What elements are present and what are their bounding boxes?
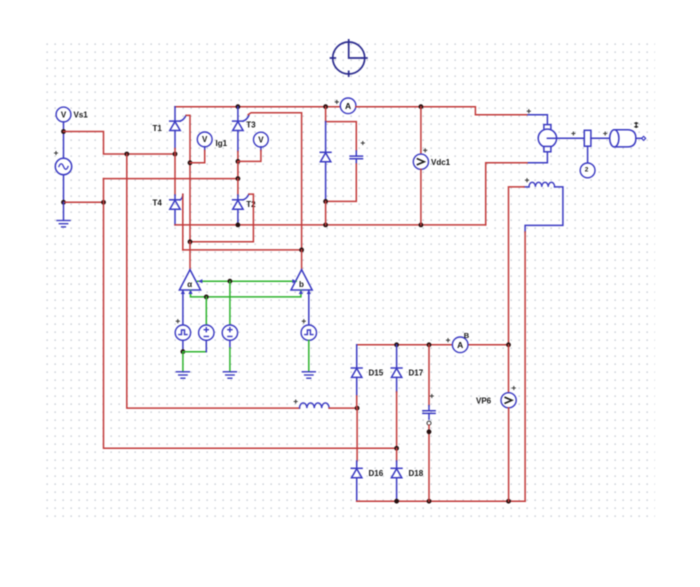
junction bottom rail freewheel — [323, 223, 328, 228]
wire phase A to T4 — [174, 154, 176, 195]
wire D17 anode to node — [396, 392, 398, 448]
arrow into b left — [292, 279, 296, 283]
capacitor C2 — [423, 406, 435, 420]
junction bottom rail T2 — [236, 223, 241, 228]
polarity mark L1 — [294, 400, 297, 403]
svg-text:T4: T4 — [153, 199, 163, 208]
square-wave source Vgb — [301, 325, 316, 340]
junction Vga return — [181, 349, 186, 354]
polarity mark AC source — [55, 152, 58, 155]
wire field bridge top rail left — [357, 344, 453, 346]
lead D17 anode — [396, 378, 398, 393]
svg-text:D15: D15 — [369, 369, 384, 378]
junction bottom rail C2 — [427, 499, 432, 504]
wire D15 anode to node — [356, 396, 358, 408]
wire bottom DC rail — [175, 224, 486, 226]
wire field bridge top rail right — [468, 344, 508, 346]
lead T3 cathode — [237, 107, 239, 121]
load terminal — [642, 136, 646, 140]
junction top rail freewheel — [323, 104, 328, 109]
svg-text:2: 2 — [585, 167, 589, 174]
svg-text:B: B — [464, 331, 470, 340]
voltmeter Ig1 — [197, 132, 212, 147]
wire T3 anode to node — [237, 152, 239, 162]
svg-text:Ig1: Ig1 — [216, 139, 228, 148]
wire D15-D16 node down — [356, 408, 358, 461]
smoothing inductor L1 — [300, 403, 330, 408]
thyristor T1 — [170, 116, 186, 131]
shaft mark 2 — [604, 132, 607, 135]
lead D15 anode — [356, 378, 358, 397]
lead T2 cathode — [237, 195, 239, 200]
wire Ig1 to gate net a — [190, 151, 205, 163]
mechanical load ML1 — [610, 130, 642, 147]
lead Vs1 to AC source — [63, 122, 65, 159]
wire C2 top — [428, 345, 430, 406]
junction bottom rail Vdc1 — [419, 223, 424, 228]
lead D15 cathode — [356, 345, 358, 368]
field winding Lf — [529, 182, 555, 187]
voltmeter Vs1 — [56, 107, 71, 122]
svg-text:T3: T3 — [246, 121, 256, 130]
wire motor return to bottom rail — [486, 163, 527, 225]
wire to source Vdc2 — [205, 297, 207, 325]
svg-text:A: A — [345, 101, 351, 111]
lead field right down — [525, 187, 563, 232]
lead T4 anode — [174, 209, 176, 225]
wire net a to controller a — [189, 242, 191, 270]
arrow into a right — [198, 279, 202, 283]
load torque mark — [635, 123, 638, 128]
svg-text:D16: D16 — [369, 469, 384, 478]
junction T3 anode meter — [236, 159, 241, 164]
junction top rail T3 — [236, 104, 241, 109]
polarity mark motor — [527, 110, 530, 113]
polarity mark Vg a — [176, 320, 179, 323]
ground Vgb — [302, 372, 315, 378]
lead motor armature - — [527, 152, 547, 163]
wire freewheel to bottom rail — [325, 201, 327, 225]
junction freewheel bottom — [323, 199, 328, 204]
polarity mark field — [526, 179, 529, 182]
junction C2 bottom node — [427, 429, 432, 434]
wire VP6 bottom — [508, 408, 510, 501]
wire field+ down to field bus — [509, 187, 525, 345]
junction source- bus — [101, 200, 106, 205]
junction phase A tap — [124, 152, 129, 157]
lead to ground — [63, 202, 65, 220]
wire T3 gate to net b — [248, 113, 301, 250]
ammeter B — [452, 337, 468, 353]
thyristor T2 — [233, 194, 249, 209]
wire phase B to T2 — [237, 179, 239, 195]
junction bottom rail VP6 — [506, 499, 511, 504]
shaft motor to sensor — [557, 137, 585, 139]
wire L1 to diode bridge — [329, 407, 357, 409]
wire freewheel branch top — [326, 107, 357, 151]
wire phase A down to smoothing inductor — [127, 154, 300, 408]
node source bottom — [61, 200, 66, 205]
wire Vg3 to T3 anode — [238, 151, 261, 162]
lead T1 cathode — [174, 107, 176, 121]
DC motor M1 — [538, 125, 556, 152]
arrow into a bottom — [188, 290, 192, 294]
polarity mark ammeter B — [447, 339, 450, 342]
lead sensor to speed meter — [587, 146, 589, 163]
wire source+ to bridge phase A — [64, 132, 176, 155]
ground Vga — [176, 372, 189, 378]
svg-text:V: V — [202, 135, 208, 144]
wire to source Vdc3 — [229, 281, 231, 325]
diode D16 — [351, 468, 362, 477]
lead b sync input — [308, 290, 310, 325]
lead T3 anode — [237, 131, 239, 152]
ground Vdc3 — [223, 372, 236, 378]
svg-text:b: b — [299, 280, 304, 289]
lead AC source bottom — [63, 175, 65, 203]
lead Vdc3 bottom — [229, 340, 231, 348]
voltmeter VP6 — [501, 393, 516, 408]
polarity mark C1 — [361, 142, 364, 145]
lead a sync input — [182, 290, 184, 325]
junction top rail D17 — [394, 342, 399, 347]
thyristor T3 — [233, 116, 249, 131]
DC source Vdc3 — [222, 325, 237, 340]
lead D17 cathode — [396, 345, 398, 368]
ammeter A1 — [340, 98, 356, 114]
arrow into b bottom — [299, 290, 303, 294]
svg-text:T2: T2 — [246, 200, 256, 209]
wire phase B horizontal — [104, 178, 238, 180]
polarity mark Vg b — [302, 320, 305, 323]
junction top rail C2 — [427, 342, 432, 347]
svg-text:α: α — [187, 280, 192, 289]
lead Ig1 — [204, 147, 206, 151]
junction gate net a — [188, 239, 193, 244]
wire Vgb to ground — [308, 340, 310, 371]
junction bottom rail D18 — [394, 499, 399, 504]
DC source Vdc2 — [199, 325, 214, 340]
diode D15 — [351, 368, 362, 377]
wire T3 anode to phase B — [237, 161, 239, 178]
lead T2 anode — [237, 209, 239, 225]
junction delay net — [204, 295, 209, 300]
junction top rail field — [506, 342, 511, 347]
wire T1 gate — [186, 115, 190, 241]
lead D16 cathode — [356, 461, 358, 468]
lead T1 anode — [174, 131, 176, 149]
wire T1 anode to node — [174, 149, 176, 155]
voltmeter Vdc1 — [413, 154, 428, 169]
wire T2 gate to net a — [190, 194, 253, 242]
wire Vga to Vdc2 return — [183, 351, 206, 353]
wire D17-D18 node down — [396, 448, 398, 461]
polarity mark C2 — [430, 395, 433, 398]
freewheel diode D1 — [320, 152, 331, 161]
node source top — [61, 129, 66, 134]
lead freewheel diode anode — [325, 162, 327, 202]
AC source Vin — [55, 158, 71, 174]
node marker C2 bottom — [427, 421, 431, 425]
lead freewheel diode cathode — [325, 122, 327, 153]
shaft mark 1 — [572, 132, 575, 135]
wire C2 bottom — [428, 425, 430, 501]
lead field left — [524, 186, 529, 188]
svg-text:D18: D18 — [409, 469, 424, 478]
capacitor C1 — [350, 151, 362, 164]
wire Vdc3 to ground — [229, 348, 231, 372]
lead Vg3 — [260, 147, 262, 151]
svg-text:Vs1: Vs1 — [74, 111, 89, 120]
svg-text:D17: D17 — [409, 369, 424, 378]
wire sync net upper — [198, 280, 297, 282]
wire net b to controller b — [301, 250, 303, 270]
wire T4 gate to net b — [182, 194, 184, 250]
svg-text:V: V — [61, 110, 67, 119]
wire C1 bottom to freewheel node — [326, 164, 357, 201]
junction D15-D16 node — [355, 406, 360, 411]
arrow into b bottom right — [307, 290, 311, 294]
thyristor T4 — [170, 194, 183, 209]
wire top rail to motor — [356, 107, 528, 115]
wire Vdc1 top — [420, 107, 422, 154]
clock symbol — [331, 40, 367, 76]
wire delay net lower — [191, 290, 301, 297]
lead motor armature + — [528, 115, 547, 125]
square-wave source Vga — [175, 325, 190, 340]
junction sync upper — [228, 279, 233, 284]
svg-text:V: V — [258, 135, 264, 144]
voltmeter Vg3 — [254, 132, 269, 147]
lead T4 cathode — [174, 195, 176, 200]
lead D16 anode — [356, 478, 358, 501]
wire field- down to bottom bus — [524, 232, 526, 501]
svg-text:A: A — [457, 340, 463, 350]
svg-text:Vdc1: Vdc1 — [431, 158, 451, 167]
wire source- to bus — [64, 201, 104, 203]
wire Vga to ground — [182, 352, 184, 372]
alpha controller a — [179, 270, 200, 290]
diode D17 — [391, 368, 402, 377]
wire phase B down to diode bridge D17-D18 — [104, 179, 397, 449]
polarity mark ammeter A1 — [335, 100, 338, 103]
diode D18 — [391, 468, 402, 477]
junction D17-D18 node — [394, 446, 399, 451]
junction T1-T4 node — [173, 152, 178, 157]
speed sensor block — [584, 130, 591, 146]
wire top DC rail left — [175, 106, 340, 108]
lead Vga bottom — [182, 340, 184, 351]
wire gate net b horizontal — [183, 249, 302, 251]
junction gate net b — [299, 248, 304, 253]
polarity mark VP6 — [512, 387, 515, 390]
junction top rail Vdc1 — [419, 104, 424, 109]
wire Vdc1 bottom — [420, 169, 422, 225]
speed meter W1 — [580, 163, 595, 178]
svg-text:VP6: VP6 — [476, 397, 492, 406]
wire VP6 top — [508, 345, 510, 393]
lead Vdc2 bottom — [205, 340, 207, 351]
arrow into a bottom left — [181, 290, 185, 294]
lead D18 anode — [396, 478, 398, 501]
wire field bridge bottom rail — [357, 500, 525, 502]
junction gate net a tap — [188, 160, 193, 165]
polarity mark Vdc1 — [424, 149, 427, 152]
shaft sensor to load — [591, 137, 610, 139]
junction phase B node — [236, 176, 241, 181]
svg-text:T1: T1 — [153, 124, 163, 133]
alpha controller b — [291, 270, 312, 290]
ground source — [57, 221, 70, 227]
lead D18 cathode — [396, 461, 398, 468]
